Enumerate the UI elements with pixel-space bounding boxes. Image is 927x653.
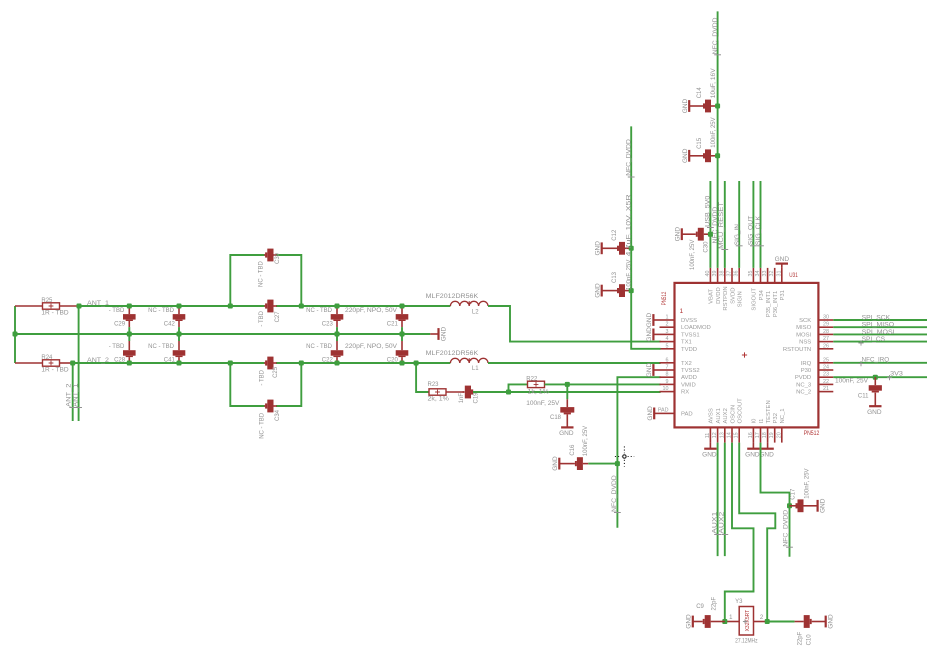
svg-text:I1: I1	[759, 419, 765, 424]
svg-text:TVSS2: TVSS2	[681, 368, 700, 374]
svg-text:12: 12	[712, 432, 718, 438]
wire L2 to TX1	[488, 306, 661, 342]
ground pin 16	[752, 443, 754, 449]
svg-text:C19: C19	[474, 392, 480, 404]
pin 39 DVDD	[717, 268, 719, 283]
pin 34 P34	[760, 268, 762, 283]
svg-text:2: 2	[666, 322, 669, 328]
svg-text:LOADMOD: LOADMOD	[681, 325, 711, 331]
pin 24 P30	[818, 369, 833, 371]
wire R22 to VMID	[545, 383, 661, 385]
capacitor C21	[401, 306, 403, 314]
svg-text:C10: C10	[806, 634, 812, 646]
svg-text:26: 26	[823, 343, 829, 349]
svg-text:33: 33	[762, 271, 768, 277]
svg-text:TVDD: TVDD	[681, 347, 697, 353]
node NFC_DVDD top	[717, 11, 719, 268]
capacitor C23	[336, 306, 338, 314]
junction	[722, 619, 727, 624]
svg-text:MOSI: MOSI	[796, 332, 811, 338]
svg-text:GND: GND	[702, 451, 717, 458]
ground pin 31	[781, 264, 783, 268]
junction	[70, 361, 75, 366]
svg-text:NFC_IRQ: NFC_IRQ	[862, 358, 890, 364]
svg-text:100nF, 25V: 100nF, 25V	[526, 401, 559, 407]
svg-text:PVDD: PVDD	[795, 375, 811, 381]
svg-text:L1: L1	[472, 366, 479, 372]
svg-text:C14: C14	[697, 87, 703, 99]
svg-text:C9: C9	[696, 604, 704, 610]
node NFC_DVDD left / wire to TVDD	[631, 126, 660, 348]
svg-text:C41: C41	[164, 357, 176, 363]
capacitor C19	[463, 391, 465, 393]
svg-text:220pF, NPO, 50V: 220pF, NPO, 50V	[345, 344, 397, 350]
origin cross	[742, 352, 747, 357]
node NFC_IRQ	[833, 362, 927, 364]
svg-text:- TBD: - TBD	[259, 369, 265, 385]
node SIG_CLK	[760, 181, 762, 268]
svg-text:GND: GND	[646, 312, 653, 327]
svg-text:10uF, 16V: 10uF, 16V	[711, 68, 717, 98]
svg-text:NC_1: NC_1	[780, 408, 786, 423]
svg-text:16: 16	[748, 432, 754, 438]
ground	[681, 228, 683, 240]
pin 37 SVDD	[731, 268, 733, 283]
capacitor C34	[264, 405, 265, 407]
ground	[816, 500, 818, 512]
svg-text:C34: C34	[275, 409, 281, 421]
svg-text:GND: GND	[647, 406, 654, 421]
resistor R22	[528, 381, 545, 387]
svg-text:TX2: TX2	[681, 361, 692, 367]
ground	[601, 285, 603, 297]
pin 5 TVDD	[660, 348, 675, 350]
capacitor C20	[401, 334, 403, 341]
svg-text:NFC_DVDD: NFC_DVDD	[713, 206, 719, 243]
svg-text:SCK: SCK	[799, 318, 811, 324]
svg-text:PAD: PAD	[681, 411, 693, 417]
junction	[13, 332, 18, 337]
junction C16	[615, 461, 620, 466]
svg-text:15: 15	[734, 432, 740, 438]
svg-text:19: 19	[769, 432, 775, 438]
svg-text:GND: GND	[646, 327, 653, 342]
svg-text:C18: C18	[550, 415, 562, 421]
svg-text:SPI_SCK: SPI_SCK	[862, 316, 891, 322]
svg-text:SIG_IN: SIG_IN	[735, 224, 741, 245]
svg-text:TX1: TX1	[681, 340, 692, 346]
svg-text:SPI_MOSI: SPI_MOSI	[862, 330, 895, 336]
svg-text:VBAT: VBAT	[709, 289, 715, 304]
svg-text:R22: R22	[526, 376, 538, 382]
pin 9 VMID	[660, 383, 675, 385]
svg-text:GND: GND	[775, 256, 790, 263]
ground mid	[437, 328, 439, 340]
node SPI_SCK	[833, 319, 927, 321]
svg-text:USB_5V0: USB_5V0	[705, 195, 711, 227]
svg-text:GND: GND	[819, 498, 826, 513]
svg-text:1: 1	[729, 615, 733, 621]
svg-text:C16: C16	[570, 444, 576, 456]
svg-text:32: 32	[769, 271, 775, 277]
svg-text:SPI_CS: SPI_CS	[862, 337, 886, 343]
pin 7 TVSS2	[660, 369, 675, 371]
capacitor C22	[336, 334, 338, 341]
svg-text:AUX2: AUX2	[723, 408, 729, 423]
capacitor C10	[767, 621, 794, 623]
ground pin 11	[709, 443, 711, 449]
svg-text:10: 10	[663, 386, 669, 392]
svg-text:C25: C25	[273, 366, 279, 378]
svg-text:GND: GND	[745, 451, 760, 458]
ground	[825, 616, 827, 628]
svg-text:AVDD: AVDD	[681, 375, 697, 381]
svg-text:2: 2	[760, 615, 764, 621]
pin 28 MOSI	[818, 333, 833, 335]
svg-text:GND: GND	[440, 326, 447, 341]
svg-text:AUX1: AUX1	[716, 408, 722, 423]
capacitor C42	[178, 306, 180, 314]
svg-text:11: 11	[705, 433, 711, 439]
pin 6 TX2	[660, 362, 675, 364]
wire to R22	[509, 384, 528, 392]
svg-text:100nF, 25V: 100nF, 25V	[711, 117, 717, 147]
pin 29 MISO	[818, 326, 833, 328]
svg-text:17: 17	[755, 432, 761, 438]
svg-text:OSCIN: OSCIN	[730, 405, 736, 424]
svg-text:C29: C29	[114, 322, 126, 328]
svg-text:C42: C42	[164, 322, 176, 328]
pin 22 NC_3	[818, 383, 833, 385]
svg-text:P31: P31	[780, 290, 786, 300]
pin 23 PVDD	[818, 376, 833, 378]
svg-text:AUX1: AUX1	[713, 511, 719, 534]
svg-text:1k, 1%: 1k, 1%	[528, 389, 550, 395]
svg-text:GND: GND	[594, 241, 601, 256]
svg-text:GND: GND	[552, 456, 559, 471]
resistor R23	[429, 389, 446, 395]
svg-text:31: 31	[776, 271, 782, 277]
pin 25 IRQ	[818, 362, 833, 364]
svg-text:C28: C28	[114, 357, 126, 363]
svg-text:100nF, 25V: 100nF, 25V	[626, 260, 632, 290]
svg-text:NC - TBD: NC - TBD	[306, 344, 333, 350]
svg-text:C11: C11	[858, 394, 869, 400]
pin 26 RSTOUTN	[818, 348, 833, 350]
svg-text:P32: P32	[773, 413, 779, 423]
mouse cursor crosshair	[615, 446, 634, 466]
svg-text:R23: R23	[428, 382, 440, 388]
pin 8 AVDD	[660, 376, 675, 378]
ground	[558, 458, 560, 470]
svg-text:14: 14	[727, 432, 733, 438]
svg-text:Y3: Y3	[735, 599, 743, 605]
svg-text:RX: RX	[681, 390, 689, 396]
pin 36 SIGIN	[738, 268, 740, 283]
svg-text:9: 9	[666, 379, 669, 385]
resistor R24	[15, 362, 43, 364]
svg-text:1: 1	[666, 315, 669, 321]
svg-text:2k, 1%: 2k, 1%	[428, 396, 450, 402]
svg-text:P30: P30	[801, 368, 812, 374]
svg-text:21: 21	[823, 386, 829, 392]
svg-text:NFC_DVDD: NFC_DVDD	[626, 138, 632, 175]
pin 13 AUX2	[724, 427, 726, 442]
pin 10 RX	[660, 391, 675, 393]
svg-text:35: 35	[748, 271, 754, 277]
svg-text:NFC_DVDD: NFC_DVDD	[713, 17, 719, 54]
pin 19 P32	[774, 427, 776, 442]
svg-text:- TBD: - TBD	[109, 344, 125, 350]
svg-text:SIGIN: SIGIN	[738, 291, 744, 307]
svg-text:20: 20	[776, 432, 782, 438]
pin 4 TX1	[660, 341, 675, 343]
svg-text:4.7uF, 10V, X5R: 4.7uF, 10V, X5R	[626, 193, 632, 256]
svg-text:R24: R24	[41, 355, 53, 361]
svg-text:ANT_2: ANT_2	[87, 358, 110, 364]
svg-text:C12: C12	[612, 229, 618, 241]
svg-text:L2: L2	[472, 309, 479, 315]
node SIG_IN	[738, 181, 740, 268]
svg-text:13: 13	[719, 432, 725, 438]
pin 38 RSTPDN	[724, 268, 726, 283]
svg-text:ANT_1: ANT_1	[87, 301, 110, 307]
svg-text:SIG_OUT: SIG_OUT	[749, 215, 755, 245]
svg-text:GND: GND	[682, 98, 689, 113]
svg-text:22: 22	[823, 379, 829, 385]
junction R23 branch	[414, 361, 419, 366]
pin 3 TVSS1	[660, 333, 675, 335]
ground	[692, 616, 694, 628]
svg-text:NC - TBD: NC - TBD	[148, 344, 175, 350]
svg-text:18: 18	[762, 432, 768, 438]
svg-text:3V3: 3V3	[890, 372, 904, 378]
svg-text:7: 7	[666, 365, 669, 371]
svg-text:SPI_MISO: SPI_MISO	[862, 323, 895, 329]
svg-text:PN512: PN512	[804, 431, 820, 437]
ground	[688, 100, 690, 112]
svg-text:C22: C22	[322, 357, 334, 363]
wire top bypass loop	[230, 255, 264, 306]
svg-text:IRQ: IRQ	[801, 361, 812, 367]
resistor R25	[15, 305, 43, 307]
svg-text:GND: GND	[594, 283, 601, 298]
junction	[565, 382, 570, 387]
svg-text:NC_3: NC_3	[796, 382, 812, 388]
capacitor C28	[128, 334, 130, 341]
pin 20 NC_1	[781, 427, 783, 442]
svg-text:U31: U31	[789, 273, 798, 279]
svg-text:RSTPDN: RSTPDN	[723, 286, 729, 310]
capacitor C41	[178, 334, 180, 341]
capacitor C17	[790, 505, 796, 507]
svg-text:C21: C21	[387, 322, 399, 328]
left rail	[14, 306, 16, 363]
svg-text:X32K5RT: X32K5RT	[745, 610, 751, 632]
pin 18 TESTEN	[767, 427, 769, 442]
pin 21 NC_2	[818, 391, 833, 393]
svg-text:23: 23	[823, 372, 829, 378]
pin 30 SCK	[818, 319, 833, 321]
svg-text:40: 40	[705, 271, 711, 277]
ground	[688, 150, 690, 162]
pin 12 AUX1	[717, 427, 719, 442]
svg-text:C23: C23	[322, 322, 334, 328]
svg-text:39: 39	[712, 271, 718, 277]
ground pin	[653, 319, 659, 321]
svg-text:MLF2012DR56K: MLF2012DR56K	[426, 294, 479, 300]
svg-text:TVSS1: TVSS1	[681, 332, 700, 338]
wire bottom bypass loop	[230, 363, 264, 406]
svg-text:SIG_CLK: SIG_CLK	[756, 216, 762, 245]
svg-text:22pF: 22pF	[797, 631, 803, 645]
svg-text:NSS: NSS	[799, 340, 811, 346]
svg-text:8: 8	[666, 372, 669, 378]
svg-text:5: 5	[666, 343, 669, 349]
pin 11 AVSS	[709, 427, 711, 442]
wire OSCOUT to crystal	[739, 443, 775, 622]
pin 2 LOADMOD	[660, 326, 675, 328]
svg-text:DVSS: DVSS	[681, 318, 697, 324]
pin 15 OSCOUT	[738, 427, 740, 442]
pin 1 DVSS	[660, 319, 675, 321]
wire ANT_1 row	[79, 305, 265, 307]
capacitor C25	[264, 362, 265, 364]
svg-text:SVDD: SVDD	[730, 288, 736, 304]
svg-text:ANT_1: ANT_1	[74, 383, 80, 407]
svg-text:R25: R25	[41, 298, 53, 304]
wire C19 to RX	[473, 391, 661, 393]
inductor L2	[450, 301, 488, 306]
svg-text:NC - TBD: NC - TBD	[259, 412, 265, 439]
node MCU_RESET	[724, 181, 726, 268]
svg-text:I0: I0	[752, 418, 758, 424]
junction	[765, 619, 770, 624]
svg-text:NC - TBD: NC - TBD	[259, 260, 265, 287]
pin 40 VBAT	[709, 268, 711, 283]
svg-text:PN512: PN512	[662, 291, 668, 305]
svg-text:36: 36	[734, 271, 740, 277]
node SPI_MISO	[833, 326, 927, 328]
ground	[869, 405, 881, 407]
svg-text:30: 30	[823, 315, 829, 321]
ground pin	[653, 369, 659, 371]
wire L1 to TX2	[488, 362, 661, 364]
svg-text:28: 28	[823, 329, 829, 335]
svg-text:GND: GND	[682, 148, 689, 163]
svg-text:MISO: MISO	[796, 325, 811, 331]
pin 35 SIGOUT	[752, 268, 754, 283]
svg-text:25: 25	[823, 357, 829, 363]
op-amp U31 PN512 IC body	[675, 283, 819, 428]
svg-text:AUX2: AUX2	[719, 511, 725, 534]
svg-text:27.12MHz: 27.12MHz	[735, 639, 758, 645]
svg-text:NFC_DVDD: NFC_DVDD	[783, 509, 789, 546]
svg-text:NC - TBD: NC - TBD	[306, 308, 333, 314]
svg-text:MCU_RESET: MCU_RESET	[719, 202, 725, 249]
pin 32 P36_INT1	[774, 268, 776, 283]
svg-text:C30: C30	[704, 241, 710, 253]
svg-text:GND: GND	[674, 227, 681, 242]
junction C11	[873, 375, 878, 380]
pin 17 I1	[760, 427, 762, 442]
svg-text:C17: C17	[791, 488, 797, 500]
svg-text:4: 4	[666, 336, 669, 342]
svg-text:SIGOUT: SIGOUT	[752, 288, 758, 311]
pin 14 OSCIN	[731, 427, 733, 442]
node ANT_1 stub	[78, 306, 80, 421]
node ANT_2 stub	[72, 363, 74, 421]
svg-text:RSTOUTN: RSTOUTN	[783, 347, 811, 353]
svg-text:C15: C15	[697, 137, 703, 149]
svg-text:P35_INT1: P35_INT1	[766, 291, 772, 318]
svg-text:GND: GND	[828, 614, 835, 629]
svg-text:VMID: VMID	[681, 382, 696, 388]
svg-text:100nF, 25V: 100nF, 25V	[804, 468, 810, 498]
inductor L1	[450, 358, 488, 363]
capacitor C27	[264, 305, 265, 307]
svg-text:DVDD: DVDD	[716, 287, 722, 304]
pin PAD	[660, 412, 675, 414]
svg-text:220pF, NPO, 50V: 220pF, NPO, 50V	[345, 308, 397, 314]
svg-text:OSCOUT: OSCOUT	[738, 398, 744, 424]
svg-text:NC_2: NC_2	[796, 390, 811, 396]
svg-text:C27: C27	[275, 311, 281, 323]
node SPI_CS	[833, 341, 927, 343]
ground pin 18	[767, 443, 769, 449]
svg-text:C13: C13	[612, 271, 618, 283]
node 3V3	[833, 376, 927, 378]
svg-text:GND: GND	[559, 430, 574, 437]
svg-text:27: 27	[823, 336, 829, 342]
node USB_5V0	[709, 181, 711, 268]
svg-text:100nF, 25V: 100nF, 25V	[583, 426, 589, 456]
svg-text:NFC_DVDD: NFC_DVDD	[612, 474, 618, 511]
svg-text:24: 24	[823, 365, 829, 371]
junction C17	[787, 503, 792, 508]
node SIG_OUT	[752, 181, 754, 268]
svg-text:MLF2012DR56K: MLF2012DR56K	[426, 351, 479, 357]
svg-text:P34: P34	[759, 289, 765, 300]
svg-text:6: 6	[666, 357, 669, 363]
ground pin	[653, 333, 659, 335]
svg-text:NC - TBD: NC - TBD	[148, 308, 175, 314]
pin 33 P35_INT1	[767, 268, 769, 283]
svg-text:GND: GND	[685, 614, 692, 629]
wire OSCIN to crystal	[725, 443, 754, 622]
svg-text:ANT_2: ANT_2	[67, 383, 73, 407]
capacitor C29	[128, 306, 130, 314]
svg-text:C39: C39	[275, 252, 281, 264]
svg-text:29: 29	[823, 322, 829, 328]
junction	[506, 390, 511, 395]
wire pin17 to NFC_DVDD bottom	[761, 443, 790, 557]
node AUX2	[724, 443, 726, 556]
svg-text:TESTEN: TESTEN	[766, 400, 772, 423]
ground	[601, 242, 603, 254]
node AUX1	[717, 443, 719, 556]
svg-text:3: 3	[666, 329, 669, 335]
svg-text:- TBD: - TBD	[259, 310, 265, 326]
svg-text:100nF, 25V: 100nF, 25V	[690, 240, 696, 270]
svg-text:1R - TBD: 1R - TBD	[41, 368, 69, 374]
capacitor C18	[566, 384, 568, 399]
crystal Y3	[739, 607, 753, 636]
svg-text:1nF: 1nF	[459, 393, 465, 404]
svg-text:22pF: 22pF	[712, 596, 718, 610]
svg-text:C20: C20	[387, 357, 399, 363]
svg-text:- TBD: - TBD	[109, 308, 125, 314]
